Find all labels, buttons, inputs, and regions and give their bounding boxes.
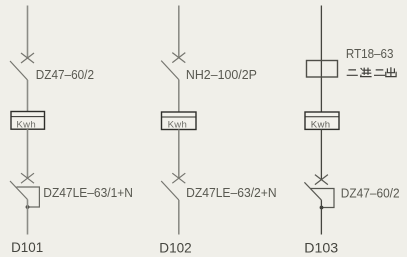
kWh meter PJ1 (11, 112, 45, 131)
breaker QF2 residual-current loop (17, 187, 40, 207)
wire meter to QF2 (27, 129, 29, 178)
glyph er (two) (347, 70, 358, 75)
wire QF3 to meter (178, 80, 180, 113)
kWh meter PJ2 (162, 112, 197, 130)
breaker QF3 contact cross (172, 53, 185, 63)
label two-in two-out (Chinese) (347, 67, 396, 76)
svg-text:Kwh: Kwh (168, 119, 188, 130)
breaker QF5 contact cross (315, 175, 328, 185)
svg-text:D103: D103 (304, 240, 338, 256)
wire D102 incoming (178, 6, 180, 58)
junction node QF2 output (26, 205, 30, 209)
svg-text:NH2–100/2P: NH2–100/2P (186, 67, 257, 82)
junction node QF5 output (320, 206, 324, 210)
kWh meter PJ3 (305, 112, 339, 130)
breaker QF1 blade (10, 61, 28, 80)
wire QF1 to meter (27, 80, 29, 112)
breaker QF1 contact cross (21, 53, 34, 63)
wire meter to QF5 (320, 129, 322, 179)
breaker QF4 blade (161, 181, 179, 200)
wire D103 incoming (through fuse) (320, 6, 322, 113)
breaker QF5 blade (304, 182, 321, 200)
wire D103 outgoing (320, 200, 322, 234)
svg-text:D101: D101 (11, 239, 43, 255)
breaker QF2 contact cross (21, 173, 34, 183)
wire D101 outgoing (27, 200, 29, 235)
breaker QF4 contact cross (172, 173, 185, 183)
breaker QF5 residual-current loop (311, 189, 335, 208)
glyph er (two) (374, 70, 385, 75)
svg-text:Kwh: Kwh (16, 119, 36, 130)
breaker QF3 blade (161, 61, 179, 80)
wire D101 incoming (27, 6, 29, 59)
glyph jin (enter) (360, 68, 372, 77)
svg-text:DZ47LE–63/2+N: DZ47LE–63/2+N (186, 185, 277, 200)
svg-text:Kwh: Kwh (311, 119, 331, 130)
svg-text:D102: D102 (159, 240, 192, 256)
glyph chu (out) (386, 67, 396, 76)
wire meter to QF4 (178, 130, 180, 179)
svg-text:RT18–63: RT18–63 (346, 46, 394, 61)
breaker QF2 blade (10, 181, 28, 200)
svg-text:DZ47–60/2: DZ47–60/2 (341, 185, 400, 200)
svg-text:DZ47–60/2: DZ47–60/2 (36, 67, 94, 82)
fuse FU1 body (307, 61, 338, 78)
svg-text:DZ47LE–63/1+N: DZ47LE–63/1+N (43, 185, 133, 200)
wire D102 outgoing (178, 200, 180, 235)
